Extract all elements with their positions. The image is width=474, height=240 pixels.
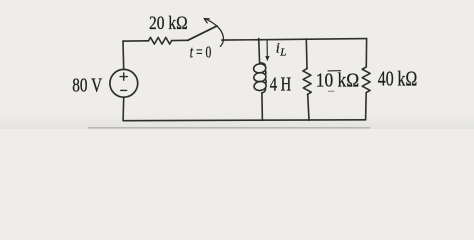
- left edge bottom segment: [122, 97, 125, 121]
- page edge shadow line: [88, 127, 370, 129]
- plus sign of source: [120, 73, 127, 80]
- switch motion curved arrow: [205, 19, 223, 47]
- resistor R3 40k zigzag: [362, 67, 370, 93]
- stray overline artifact above 10: [328, 70, 342, 72]
- voltage source V1 circle: [110, 69, 138, 97]
- stray underline artifact below 10: [328, 90, 335, 92]
- branch2 10k top wire: [305, 39, 308, 69]
- minus sign of source: [121, 89, 127, 91]
- inductor L1 coil: [253, 63, 266, 73]
- resistor R2 10k zigzag: [303, 69, 311, 95]
- svg-text:t = 0: t = 0: [190, 42, 212, 61]
- branch1 inductor top wire: [258, 38, 261, 62]
- branch2 10k bottom wire: [308, 94, 309, 120]
- resistor R1 20k zigzag: [149, 37, 172, 44]
- switch arrowhead: [204, 19, 209, 23]
- left edge top segment: [122, 41, 125, 69]
- bottom wire: [123, 119, 366, 122]
- svg-text:80 V: 80 V: [72, 74, 102, 96]
- branch1 inductor bottom wire: [261, 93, 264, 121]
- right edge bottom segment: [365, 93, 368, 120]
- svg-text:20 kΩ: 20 kΩ: [149, 13, 188, 34]
- switch blade: [188, 26, 217, 40]
- svg-text:40 kΩ: 40 kΩ: [378, 66, 417, 90]
- iL arrowhead: [265, 56, 269, 61]
- svg-text:4 H: 4 H: [270, 73, 292, 95]
- iL current arrow: [266, 40, 268, 57]
- wire top-left: [123, 40, 149, 42]
- wire top right section: [222, 39, 367, 41]
- paper background: [0, 0, 474, 129]
- right edge top segment: [365, 39, 367, 67]
- svg-text:10 kΩ: 10 kΩ: [316, 70, 359, 92]
- wire resistor to switch pivot: [172, 39, 189, 41]
